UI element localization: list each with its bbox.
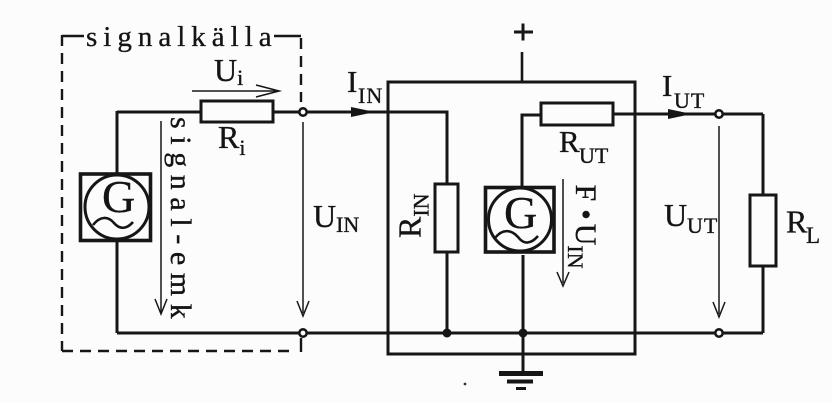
F*U_IN arrow <box>557 179 569 286</box>
arrowhead I_UT <box>668 109 692 119</box>
generator G2 square <box>486 188 555 253</box>
svg-text:G: G <box>102 171 135 222</box>
node output top <box>715 110 722 117</box>
junction R_IN/bottom <box>443 329 452 338</box>
amplifier box <box>388 82 635 354</box>
generator G1 square <box>81 174 151 241</box>
wire G2 bottom lead <box>522 255 525 333</box>
svg-text:signal-emk: signal-emk <box>164 117 197 326</box>
svg-text:IN: IN <box>358 83 383 108</box>
svg-text:IN: IN <box>336 212 359 237</box>
arrow U_UT <box>713 126 725 317</box>
svg-text:R: R <box>786 204 808 240</box>
dashed box signalkalla <box>62 35 301 352</box>
arrow Ui <box>192 85 279 97</box>
svg-text:U: U <box>313 198 336 234</box>
svg-text:U: U <box>664 197 687 233</box>
speck <box>464 383 467 386</box>
svg-text:UT: UT <box>579 143 609 168</box>
resistor R_UT <box>541 103 613 125</box>
generator G2 circle <box>489 188 552 251</box>
arrowhead I_IN <box>351 107 375 117</box>
wire R_L bottom lead <box>762 266 765 333</box>
wire R_L top lead <box>762 114 765 195</box>
svg-text:signalkälla: signalkälla <box>86 21 278 53</box>
arrow U_IN <box>297 122 309 316</box>
plus terminal <box>514 24 533 41</box>
wire input inside box <box>388 112 447 184</box>
bottom wire <box>117 332 763 335</box>
resistor R_IN <box>435 184 458 252</box>
wire R_UT to load <box>613 113 763 116</box>
wire R_IN bottom lead <box>446 252 449 333</box>
svg-text:UT: UT <box>674 88 705 113</box>
generator G1 circle <box>85 175 149 239</box>
svg-text:UT: UT <box>687 213 718 238</box>
ground <box>499 374 543 389</box>
node input top <box>299 108 306 115</box>
wire G1 bottom lead <box>116 241 119 333</box>
svg-text:I: I <box>347 64 357 99</box>
generator G2 sine <box>495 231 538 242</box>
svg-text:R: R <box>559 124 580 159</box>
plus lead wire <box>521 52 524 82</box>
generator G1 sine <box>93 218 133 228</box>
ground lead <box>522 333 525 372</box>
node output bottom <box>715 329 722 336</box>
signal-emk arrow <box>155 121 167 314</box>
wire R_UT left to generator G2 <box>522 115 541 186</box>
svg-text:L: L <box>806 223 820 248</box>
resistor R_L <box>750 195 776 266</box>
wire Ri to box <box>273 111 388 114</box>
junction G2/bottom <box>519 329 528 338</box>
svg-text:I: I <box>662 68 672 103</box>
resistor Ri <box>201 101 273 122</box>
wire top-left from generator to resistor Ri <box>117 111 202 114</box>
wire generator top lead <box>116 111 119 174</box>
node input bottom <box>299 329 306 336</box>
